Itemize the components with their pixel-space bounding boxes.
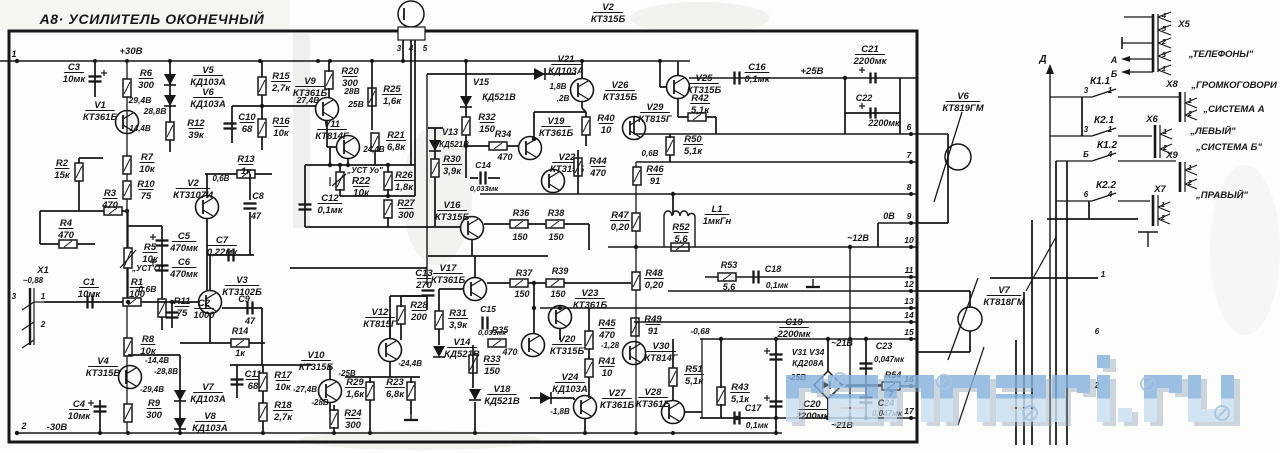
svg-text:R25: R25 <box>383 84 401 95</box>
transistor V30 <box>623 342 646 365</box>
wire line 17 <box>770 417 917 419</box>
svg-text:+30В: +30В <box>120 46 143 57</box>
label V11 <box>315 119 350 142</box>
resistor R47 <box>632 213 640 231</box>
svg-text:2: 2 <box>20 421 26 431</box>
wire line 11 <box>705 276 917 278</box>
wire R17 column <box>262 365 264 433</box>
svg-text:R21: R21 <box>387 130 404 141</box>
label V27 <box>600 388 635 411</box>
label C6 <box>169 257 199 280</box>
wire V19 collector <box>533 112 535 137</box>
svg-text:V17: V17 <box>440 263 458 274</box>
svg-text:10к: 10к <box>275 382 292 393</box>
arrow A <box>1121 56 1153 62</box>
label C5 <box>169 231 199 254</box>
label V30 <box>644 341 679 364</box>
svg-text:470мк: 470мк <box>169 243 199 254</box>
label R11 <box>174 296 191 319</box>
svg-text:100: 100 <box>129 289 146 300</box>
svg-text:Х1: Х1 <box>36 265 49 276</box>
svg-text:0,047мк: 0,047мк <box>874 355 905 364</box>
capacitor C1 <box>88 296 93 309</box>
wire V6 column <box>947 134 949 223</box>
svg-text:R50: R50 <box>684 134 702 145</box>
resistor R53 <box>718 273 736 281</box>
wire C14 right <box>488 177 500 179</box>
wire V7 link <box>128 354 180 356</box>
wire V18 bottom <box>474 402 476 433</box>
svg-text:28В: 28В <box>343 86 360 96</box>
wire V7 top link <box>917 290 970 292</box>
svg-text:11: 11 <box>905 265 914 275</box>
node x850 line17 <box>848 416 852 420</box>
wire y224 a <box>484 223 510 225</box>
wire V17 collector <box>474 256 476 277</box>
wire y224 c <box>564 223 589 225</box>
svg-text:150: 150 <box>514 289 529 299</box>
connector X5 pin 3 <box>1158 51 1171 61</box>
bus node bottom <box>473 431 477 435</box>
svg-text:V3: V3 <box>236 275 248 286</box>
label V18 <box>484 384 520 407</box>
svg-text:V2: V2 <box>602 2 614 13</box>
svg-text:V16: V16 <box>444 200 462 211</box>
svg-text:300: 300 <box>345 420 362 431</box>
resistor R13 <box>237 170 255 178</box>
svg-text:300: 300 <box>146 410 163 421</box>
svg-text:1мкГн: 1мкГн <box>703 216 732 227</box>
connector X8 bracket <box>1180 92 1185 122</box>
label R10 <box>137 179 155 202</box>
svg-text:R26: R26 <box>395 170 413 181</box>
svg-text:,2В: ,2В <box>556 94 570 103</box>
svg-text:470: 470 <box>598 330 616 341</box>
svg-text:150: 150 <box>548 232 563 242</box>
svg-text:68: 68 <box>242 124 253 135</box>
svg-text:4: 4 <box>1107 150 1113 159</box>
wire R28 rail b <box>401 295 427 297</box>
schematic frame border <box>9 31 917 442</box>
label R26 <box>394 170 414 193</box>
connector X1 pin 2 <box>22 322 34 330</box>
svg-text:С8: С8 <box>252 191 264 201</box>
polarity + <box>764 395 770 401</box>
svg-text:14,4В: 14,4В <box>129 124 151 133</box>
svg-text:10мк: 10мк <box>63 74 87 85</box>
label R3 <box>101 188 119 211</box>
svg-text:~0,88: ~0,88 <box>23 276 44 285</box>
wire line 10 <box>608 246 917 248</box>
wire V7 emitter <box>969 331 971 352</box>
label V12 <box>363 307 398 330</box>
transistor V29 <box>623 117 646 140</box>
wire V11 base <box>327 146 337 148</box>
svg-text:R39: R39 <box>552 266 569 276</box>
bus node top <box>580 59 584 63</box>
svg-text:2,7к: 2,7к <box>271 83 291 94</box>
wire y283 b <box>528 282 546 284</box>
svg-text:1,6к: 1,6к <box>383 96 402 107</box>
svg-text:5,1к: 5,1к <box>684 146 703 157</box>
svg-text:V6: V6 <box>957 91 969 102</box>
label V23 <box>573 288 608 311</box>
wire V15-C14 link <box>465 148 467 178</box>
watermark mark <box>937 375 951 389</box>
svg-text:200: 200 <box>410 312 428 323</box>
wire C19 column <box>775 339 777 433</box>
wire K2.2 down link <box>1047 218 1138 220</box>
T mark <box>1138 232 1158 247</box>
wire R41 bottom <box>588 377 590 398</box>
node x636 line10 <box>634 245 638 249</box>
terminal node 12 <box>909 289 913 293</box>
diode V15 <box>460 96 472 107</box>
resistor R30 <box>431 159 439 177</box>
svg-text:0,1мк: 0,1мк <box>317 205 343 216</box>
svg-text:С22: С22 <box>856 93 873 103</box>
wire V7 V8 column <box>179 355 181 433</box>
svg-text:14: 14 <box>904 310 914 320</box>
capacitor C21 <box>871 73 876 84</box>
wire V17 base link <box>439 288 463 290</box>
svg-text:Б: Б <box>1111 69 1118 79</box>
svg-text:С19: С19 <box>785 317 803 328</box>
watermark mark <box>1141 377 1155 391</box>
svg-text:2200мк: 2200мк <box>853 56 888 67</box>
wire V9 base rail <box>232 105 316 107</box>
svg-text:V1: V1 <box>94 100 106 111</box>
wire V29 collector <box>633 116 635 134</box>
svg-text:„ТЕЛЕФОНЫ": „ТЕЛЕФОНЫ" <box>1188 49 1254 60</box>
svg-text:150: 150 <box>484 366 501 377</box>
wire V3 emitter <box>209 314 211 343</box>
resistor R4 <box>59 240 77 248</box>
node C23 line17 <box>864 416 868 420</box>
label R40 <box>597 113 615 136</box>
wire line 12 <box>668 290 917 292</box>
svg-text:R22: R22 <box>352 176 371 187</box>
label V6 <box>190 87 226 110</box>
label R7 <box>139 152 156 175</box>
node input bias <box>126 300 130 304</box>
wire rail y268 <box>290 267 427 269</box>
wire V11 emitter drop <box>347 158 349 165</box>
svg-text:К2.2: К2.2 <box>1096 180 1116 191</box>
diode V5 <box>164 74 176 85</box>
label V26 <box>603 80 638 103</box>
wire C8 bottom <box>249 212 251 255</box>
svg-text:V27: V27 <box>609 388 627 399</box>
wire line 7 <box>636 161 917 163</box>
svg-text:1: 1 <box>1188 96 1192 105</box>
label C20 <box>795 399 830 422</box>
connector X7 bracket <box>1153 195 1158 226</box>
svg-text:R37: R37 <box>516 268 534 278</box>
regulator arrow V7 <box>948 278 978 360</box>
connector X1 pin 3 <box>22 340 34 348</box>
regulator arrow relay <box>1026 237 1056 291</box>
wire x850 column <box>849 247 851 418</box>
bus node top <box>258 59 262 63</box>
bus node bottom <box>583 431 587 435</box>
svg-text:КТ361Б: КТ361Б <box>83 112 118 123</box>
svg-text:29,4В: 29,4В <box>128 95 152 105</box>
polarity + <box>150 234 156 240</box>
svg-text:10к: 10к <box>273 128 290 139</box>
svg-text:R12: R12 <box>187 118 205 129</box>
connector X9 pin1 <box>1185 165 1197 175</box>
svg-text:V8: V8 <box>204 411 216 422</box>
wire V25 base stub <box>660 86 666 88</box>
capacitor C15 <box>483 317 488 330</box>
svg-text:1: 1 <box>1161 200 1165 209</box>
wire V24 rail <box>530 397 574 399</box>
svg-text:V21: V21 <box>558 54 575 65</box>
wire y283 c <box>564 282 631 284</box>
wire C8 lead <box>249 174 251 200</box>
svg-text:КТ819ГМ: КТ819ГМ <box>942 103 984 114</box>
svg-text:С6: С6 <box>178 257 191 268</box>
capacitor C13 <box>422 291 435 296</box>
label R45 <box>598 318 616 341</box>
label R9 <box>146 398 163 421</box>
label C3 value <box>63 62 87 85</box>
svg-text:-1,28: -1,28 <box>601 341 620 350</box>
relay contact K1.1 <box>1050 89 1180 97</box>
wire R40 bottom <box>585 135 587 146</box>
svg-text:-1,8В: -1,8В <box>550 407 570 416</box>
resistor R31 <box>435 311 443 329</box>
svg-text:6: 6 <box>907 122 912 132</box>
wire V10 collector <box>329 365 331 380</box>
svg-text:R32: R32 <box>478 112 496 123</box>
transistor V9 <box>316 98 339 121</box>
terminal node 14 <box>909 320 913 324</box>
svg-text:1к: 1к <box>235 348 245 358</box>
svg-text:КД103А: КД103А <box>190 394 226 405</box>
label C12 <box>317 193 343 216</box>
wire C11 column <box>236 365 238 398</box>
svg-text:2200мк: 2200мк <box>777 329 812 340</box>
wire C5 top link <box>128 225 162 227</box>
capacitor C7 <box>229 249 234 262</box>
label R51 <box>684 364 704 387</box>
wire R14 rail <box>180 342 265 344</box>
svg-text:КТ815Г: КТ815Г <box>638 114 673 125</box>
scan crease shading <box>293 33 310 228</box>
svg-text:91: 91 <box>648 326 659 337</box>
connector X5 pin 5 <box>1158 25 1171 35</box>
label V19 <box>539 116 574 139</box>
wire R31 top <box>438 289 440 311</box>
trimmer R5 <box>124 248 132 268</box>
label V1 <box>83 100 118 123</box>
svg-text:0,1мк: 0,1мк <box>744 74 770 85</box>
svg-text:С9: С9 <box>238 294 250 304</box>
wire R4 rail <box>40 243 95 245</box>
bus node bottom <box>261 431 265 435</box>
wire rail y227 <box>305 226 461 228</box>
svg-text:R43: R43 <box>731 382 749 393</box>
wire R20 top <box>328 61 330 72</box>
svg-text:С17: С17 <box>745 403 763 413</box>
svg-text:-0,68: -0,68 <box>690 326 710 336</box>
wire x305 column <box>304 165 306 227</box>
svg-text:13: 13 <box>904 296 914 306</box>
svg-text:V2: V2 <box>187 178 199 189</box>
svg-text:С18: С18 <box>765 264 782 274</box>
svg-text:R33: R33 <box>483 354 501 365</box>
wire R22 top <box>339 165 341 174</box>
svg-text:R3: R3 <box>104 188 117 199</box>
svg-text:5,1к: 5,1к <box>691 105 710 116</box>
svg-text:~21В: ~21В <box>831 338 853 348</box>
wire y224 b <box>528 223 546 225</box>
transistor V2 KT3107 <box>196 196 219 219</box>
wire V16 emitter <box>471 239 473 256</box>
diode V24 <box>540 392 551 404</box>
transistor V23 <box>549 306 572 329</box>
wire line 16 <box>840 385 917 387</box>
transistor V26 <box>571 79 594 102</box>
svg-text:R8: R8 <box>142 334 155 345</box>
wire V7 collector <box>969 291 971 308</box>
svg-text:15к: 15к <box>54 170 71 181</box>
resistor R10 <box>123 181 131 199</box>
resistor R3 <box>104 207 122 215</box>
wire line 13 <box>540 307 917 309</box>
resistor R23 <box>407 382 415 400</box>
svg-text:С2: С2 <box>198 298 211 309</box>
svg-text:-28,8В: -28,8В <box>154 367 178 376</box>
svg-text:L1: L1 <box>711 204 722 215</box>
svg-text:0В: 0В <box>883 211 895 221</box>
svg-text:0,1мк: 0,1мк <box>766 280 789 290</box>
svg-text:V20: V20 <box>559 334 577 345</box>
svg-text:4: 4 <box>1161 11 1167 20</box>
terminal node 13 <box>909 306 913 310</box>
svg-text:8: 8 <box>907 182 912 192</box>
wire V12 collector up <box>389 296 391 339</box>
svg-text:КТ361Б: КТ361Б <box>431 275 466 286</box>
svg-text:10: 10 <box>904 235 914 245</box>
svg-text:А8· УСИЛИТЕЛЬ ОКОНЕЧНЫЙ: А8· УСИЛИТЕЛЬ ОКОНЕЧНЫЙ <box>39 10 265 27</box>
bus node top <box>168 59 172 63</box>
svg-text:150: 150 <box>550 289 565 299</box>
resistor R39 <box>546 279 564 287</box>
svg-text:28,8В: 28,8В <box>143 106 167 116</box>
connector X6 pin2 <box>1160 144 1172 154</box>
svg-text:10: 10 <box>602 368 613 379</box>
terminal node 7 <box>909 160 913 164</box>
wire R2 column <box>78 158 80 211</box>
wire y283 a <box>487 282 510 284</box>
polarity + <box>859 103 865 109</box>
svg-text:1: 1 <box>11 49 16 59</box>
connector X7 pin1 <box>1158 202 1170 212</box>
svg-text:КД103А: КД103А <box>552 384 588 395</box>
svg-text:27,4В: 27,4В <box>296 95 320 105</box>
wire R24 top <box>333 405 335 411</box>
svg-text:V5: V5 <box>202 65 214 76</box>
svg-text:R51: R51 <box>685 364 702 375</box>
svg-text:V9: V9 <box>304 76 316 87</box>
svg-text:1: 1 <box>41 292 46 301</box>
label V6 <box>942 91 984 114</box>
node C23 line15 <box>864 337 868 341</box>
wire R42 left <box>678 116 688 118</box>
svg-text:1: 1 <box>1108 125 1113 134</box>
svg-text:25В: 25В <box>347 99 364 109</box>
svg-text:R17: R17 <box>274 370 292 381</box>
wire V2 collector <box>206 174 208 196</box>
bus node top <box>125 59 129 63</box>
svg-text:2: 2 <box>1187 178 1193 187</box>
relay contact K2.2 <box>1056 193 1150 201</box>
svg-text:Х8: Х8 <box>1165 79 1178 90</box>
wire R26 top <box>387 165 389 174</box>
svg-text:„ГРОМКОГОВОРИ: „ГРОМКОГОВОРИ <box>1190 80 1277 91</box>
wire R50 bottom <box>669 155 671 162</box>
svg-text:Х6: Х6 <box>1145 114 1158 125</box>
svg-text:R1: R1 <box>131 277 143 288</box>
svg-text:12: 12 <box>904 279 914 289</box>
svg-text:2: 2 <box>1187 109 1193 118</box>
svg-text:С21: С21 <box>861 44 878 55</box>
svg-text:300: 300 <box>398 210 415 221</box>
wire line 8 <box>480 193 917 195</box>
svg-text:10: 10 <box>601 125 612 136</box>
capacitor C22 <box>871 108 876 119</box>
svg-text:R31: R31 <box>449 308 466 319</box>
connector X5 bracket <box>1153 14 1158 72</box>
label R18 <box>273 400 293 423</box>
resistor R48 <box>632 272 640 290</box>
svg-text:5,6: 5,6 <box>723 282 737 292</box>
label R15 <box>271 71 291 94</box>
bus node bottom <box>126 431 130 435</box>
label V21 <box>548 54 584 77</box>
svg-text:1: 1 <box>1162 64 1166 73</box>
svg-text:„СИСТЕМА А: „СИСТЕМА А <box>1202 104 1264 115</box>
wire C3 lead <box>94 61 96 97</box>
resistor R34 <box>489 142 507 150</box>
svg-text:С20: С20 <box>803 399 821 410</box>
label R31 <box>448 308 468 331</box>
wire R29 bottom <box>369 400 371 433</box>
capacitor C2 <box>166 313 179 318</box>
wire V25 emitter <box>677 99 679 117</box>
wire V21 rail <box>427 73 576 75</box>
wire x415 link <box>414 165 416 196</box>
bus node bottom <box>671 431 675 435</box>
svg-text:1: 1 <box>1101 270 1106 279</box>
wire V20 collector column <box>533 283 535 334</box>
svg-text:С15: С15 <box>480 304 496 314</box>
polarity + <box>150 259 156 265</box>
svg-text:С4: С4 <box>73 399 86 410</box>
node V1 emitter <box>125 209 129 213</box>
wire +30V bus <box>0 60 690 62</box>
transistor V20 <box>522 334 545 357</box>
wire line 15 <box>700 338 917 340</box>
transistor V17 <box>464 278 487 301</box>
wire R23 top <box>410 377 412 383</box>
svg-text:„ПРАВЫЙ": „ПРАВЫЙ" <box>1195 189 1248 201</box>
transistor V11 <box>337 136 360 159</box>
wire line 6 <box>634 133 917 135</box>
